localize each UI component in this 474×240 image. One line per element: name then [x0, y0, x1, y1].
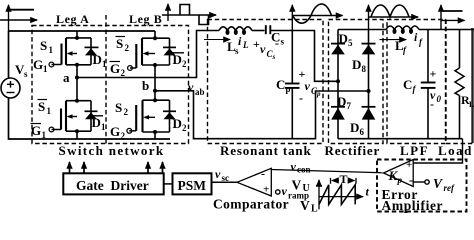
svg-text:D: D [173, 52, 182, 67]
load resistor RL [455, 30, 464, 139]
svg-text:v: v [291, 160, 297, 174]
voltage source Vs [1, 78, 20, 98]
label D8 [352, 57, 367, 74]
parallel capacitor Cp [285, 31, 300, 139]
svg-text:L: L [242, 40, 249, 50]
comparator (PWM) [237, 167, 271, 197]
error amplifier Kp [384, 159, 414, 187]
svg-text:T: T [340, 172, 348, 186]
svg-text:Amplifier: Amplifier [382, 198, 444, 213]
svg-text:+: + [263, 184, 269, 196]
svg-text:V: V [433, 176, 443, 191]
label D7 [337, 94, 352, 111]
rectifier diode D5 [331, 30, 345, 84]
svg-text:b: b [142, 78, 149, 93]
label Cs [271, 30, 285, 47]
dashed box: Error Amplifier [377, 160, 467, 212]
V_ref input terminal [413, 180, 429, 184]
svg-text:G: G [110, 61, 120, 76]
rectifier diode D6 [362, 91, 376, 139]
svg-text:D: D [352, 57, 361, 72]
resonant inductor Ls [219, 27, 252, 35]
label V_ref [433, 176, 455, 193]
svg-text:2: 2 [121, 131, 126, 141]
PSM block [173, 173, 212, 194]
waveform icon: DC input [0, 5, 37, 31]
wire: rectifier/LPF bottom rail [338, 138, 463, 140]
label v_sc [215, 167, 229, 183]
svg-text:Leg B: Leg B [129, 12, 162, 26]
dashed box: LPF [387, 20, 446, 144]
svg-text:con: con [297, 165, 311, 175]
svg-text:PSM: PSM [178, 178, 207, 193]
MOSFET S2 (Leg B low side) [127, 98, 170, 139]
current arrow iL [204, 39, 230, 41]
svg-text:S: S [40, 38, 47, 53]
label V_U [292, 178, 310, 195]
gate drive arrows to switch network [70, 162, 163, 173]
svg-text:2: 2 [124, 107, 129, 117]
label Switch network [59, 143, 165, 158]
svg-text:Load: Load [438, 143, 473, 158]
wire: comparator output to PSM [212, 181, 238, 183]
label G2 [110, 124, 126, 141]
label Cp [276, 77, 291, 94]
svg-text:S: S [116, 36, 123, 51]
svg-text:G: G [33, 57, 43, 72]
wire: left wire Vs to rails [9, 31, 171, 139]
body diode D1 of S1 [85, 38, 99, 65]
dashed box: Load [446, 20, 473, 144]
wire: output sense to error amp + input [413, 139, 462, 163]
svg-text:0: 0 [437, 94, 442, 104]
label t [366, 185, 370, 199]
body diode D1bar of S1bar [85, 101, 98, 132]
label T [340, 172, 348, 186]
label V_L [300, 198, 318, 215]
current arrow if [380, 39, 407, 41]
svg-text:Switch network: Switch network [59, 143, 165, 158]
svg-text:1: 1 [49, 45, 54, 55]
svg-text:s: s [24, 69, 28, 79]
svg-text:-: - [430, 97, 434, 111]
label S1 [40, 38, 54, 55]
wire: top rail from Vs to Leg B [9, 30, 156, 32]
label v_con [291, 160, 311, 175]
svg-text:S: S [115, 100, 122, 115]
svg-text:+: + [406, 159, 412, 171]
svg-text:s: s [281, 37, 285, 47]
svg-text:1: 1 [47, 106, 52, 116]
label S2bar [116, 36, 130, 53]
waveform icon: sine in resonant tank [292, 4, 342, 31]
svg-text:D: D [339, 31, 348, 46]
svg-text:D: D [92, 115, 101, 130]
svg-text:V: V [292, 178, 302, 193]
svg-text:v: v [188, 80, 194, 94]
label Load [438, 143, 473, 158]
body diode D2 of S2 [163, 100, 176, 132]
label iL [238, 34, 249, 50]
svg-text:-: - [275, 36, 279, 50]
svg-text:2: 2 [121, 68, 126, 78]
label D2bar [172, 52, 187, 69]
svg-text:-: - [299, 91, 303, 105]
label G2bar [110, 61, 126, 78]
MOSFET S2bar (Leg B high side) [128, 31, 170, 70]
label G1 [33, 57, 48, 74]
svg-text:1: 1 [101, 122, 106, 132]
svg-text:Rectifier: Rectifier [325, 143, 381, 158]
svg-text:D: D [93, 52, 102, 67]
svg-text:+: + [430, 67, 437, 81]
label Resonant tank [220, 143, 312, 158]
svg-text:LPF: LPF [400, 143, 429, 158]
svg-text:2: 2 [182, 123, 187, 133]
svg-text:Resonant tank: Resonant tank [220, 143, 312, 158]
label G1bar [31, 123, 47, 140]
wire: gate driver to PSM [164, 183, 173, 185]
svg-text:ab: ab [195, 87, 205, 97]
svg-text:v: v [260, 42, 266, 56]
wire: Lf to output [419, 29, 474, 31]
svg-text:G: G [110, 124, 120, 139]
label D1 [93, 52, 108, 69]
label S1bar [38, 99, 52, 116]
svg-text:v: v [215, 167, 221, 181]
rectifier diode D7 [331, 81, 345, 138]
svg-text:1: 1 [42, 130, 47, 140]
dashed box: Resonant tank [208, 20, 324, 144]
svg-text:S: S [38, 99, 45, 114]
svg-text:C: C [276, 77, 285, 92]
svg-text:p: p [316, 90, 321, 98]
svg-text:6: 6 [360, 127, 365, 137]
wire: Ls to Cs [252, 30, 265, 32]
wire: Cs to rectifier input (top) [270, 31, 338, 82]
svg-text:7: 7 [347, 101, 352, 111]
MOSFET S1 (Leg A high side) [49, 31, 91, 67]
svg-text:D: D [337, 94, 346, 109]
svg-text:U: U [303, 183, 310, 194]
label node b [142, 78, 149, 93]
label Lf [395, 38, 407, 55]
body diode D2bar of S2bar [163, 38, 176, 65]
label v_ramp [282, 184, 310, 201]
label RL [461, 93, 474, 109]
svg-text:5: 5 [348, 38, 353, 48]
label Comparator [213, 197, 289, 212]
svg-text:Gate Driver: Gate Driver [76, 178, 149, 193]
node b junction [153, 65, 157, 100]
label +vCp- [299, 67, 322, 105]
Gate Driver block [63, 173, 163, 194]
svg-text:D: D [350, 120, 359, 135]
svg-text:-: - [409, 173, 413, 187]
svg-text:G: G [31, 123, 41, 138]
waveform icon: square wave after switch network [162, 4, 216, 25]
wire: node a to resonant tank [77, 31, 219, 78]
label: Leg B [129, 12, 162, 26]
label Cf [403, 77, 417, 94]
label: Leg A [56, 12, 89, 26]
svg-text:8: 8 [362, 64, 367, 74]
waveform icon: rectified sine [369, 5, 419, 30]
svg-text:-: - [261, 167, 265, 181]
resonant capacitor Cs [266, 25, 271, 34]
svg-text:2: 2 [182, 59, 187, 69]
svg-text:v: v [305, 79, 311, 93]
svg-text:1: 1 [102, 59, 107, 69]
label D2 [173, 116, 188, 133]
rectifier diode D8 [362, 30, 376, 94]
filter capacitor Cf [421, 30, 436, 139]
node a junction dots [75, 36, 79, 101]
wire: node b to tank bottom rail [155, 91, 369, 139]
svg-text:ref: ref [444, 183, 455, 193]
label Error Amplifier [382, 187, 444, 213]
label if [414, 30, 423, 47]
MOSFET S1bar (Leg A low side) [49, 99, 91, 139]
svg-text:Comparator: Comparator [213, 197, 289, 212]
svg-text:C: C [403, 77, 412, 92]
label v_ab [188, 80, 205, 97]
svg-text:L: L [469, 100, 474, 109]
label S2 [115, 100, 129, 117]
comparator ramp input terminal [276, 190, 280, 194]
svg-text:sc: sc [222, 173, 230, 183]
label +v0- [430, 67, 442, 112]
dashed box: Switch network [32, 26, 189, 144]
svg-text:s: s [272, 53, 276, 61]
label Vs [15, 62, 28, 79]
waveform icon: DC output [441, 5, 465, 30]
wire: rectifier output top rail [338, 29, 386, 31]
svg-text:V: V [300, 198, 310, 213]
dashed separator between Leg A and Leg B [105, 15, 107, 144]
svg-text:Leg A: Leg A [56, 12, 89, 26]
ramp waveform V_U/V_L sawtooth [316, 178, 363, 209]
svg-text:L: L [311, 204, 318, 215]
label D6 [350, 120, 365, 137]
label Rectifier [325, 143, 381, 158]
filter inductor Lf [386, 26, 419, 34]
label +vCs [253, 36, 279, 61]
label Ls [227, 39, 239, 56]
svg-text:D: D [173, 116, 182, 131]
svg-text:p: p [397, 175, 403, 185]
svg-text:p: p [286, 84, 291, 94]
dashed box: Rectifier [329, 20, 384, 144]
svg-text:+: + [253, 37, 260, 51]
label node a [63, 70, 70, 85]
label LPF [400, 143, 429, 158]
svg-text:2: 2 [125, 43, 130, 53]
label D1bar [91, 115, 106, 132]
svg-text:1: 1 [43, 64, 48, 74]
wire: error amp output (v_con) to comparator - input [271, 170, 383, 173]
label D5 [339, 31, 354, 48]
svg-text:a: a [63, 70, 70, 85]
